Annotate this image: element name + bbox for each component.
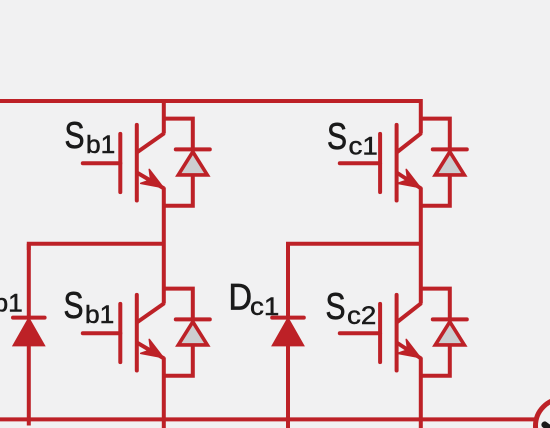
wire: left leg between IGBTs (emitter Sb1 to collector Sb1lower): [162, 187, 166, 303]
IGBT Sc2 (bottom right): gate bar: [378, 304, 382, 362]
IGBT Sb1 (bottom left): body bar: [135, 295, 139, 371]
wire: right leg between IGBTs: [419, 187, 423, 303]
IGBT Sc1 (top right): collector diagonal: [397, 133, 422, 152]
IGBT Sc2 (bottom right): gate lead: [340, 331, 380, 335]
svg-text:S: S: [327, 116, 347, 157]
IGBT Sc2 (bottom right): body bar: [395, 295, 399, 371]
wire: diode branch bottom of Sc1 (top right): [421, 175, 450, 206]
IGBT Sb1 (top left): emitter diagonal: [137, 173, 164, 189]
clamp diode Dc1: wire down from clamp wire: [286, 244, 290, 316]
IGBT Sb1 (bottom left): gate bar: [118, 304, 122, 362]
wire: diode branch top of Sc1 (top right): [421, 119, 450, 150]
wire: diode branch bottom of Sb1 (top left): [164, 175, 193, 206]
IGBT Sb1 (bottom left): gate lead: [83, 331, 121, 335]
svg-text:b1: b1: [0, 290, 23, 318]
IGBT Sb1 (top left): gate bar: [118, 134, 122, 192]
antiparallel diode of Sb1 (bottom left): cathode bar: [176, 317, 210, 321]
svg-text:S: S: [64, 285, 84, 326]
IGBT Sc2 (bottom right): emitter diagonal: [397, 343, 422, 359]
wire: diode branch bottom of Sc2 (bottom right): [421, 345, 450, 376]
IGBT Sc1 (top right): emitter arrowhead: [398, 169, 425, 194]
IGBT Sb1 (bottom left): emitter diagonal: [137, 343, 164, 359]
IGBT Sb1 (top left): gate lead: [83, 161, 121, 165]
svg-text:c1: c1: [349, 133, 378, 161]
wire: left leg from top bus to top IGBT collector: [162, 99, 166, 134]
svg-text:c1: c1: [250, 293, 279, 321]
svg-text:b1: b1: [86, 131, 115, 159]
IGBT Sc2 (bottom right): emitter arrowhead: [398, 339, 425, 364]
IGBT Sb1 (top left): collector diagonal: [137, 133, 165, 152]
load/source circle (partially visible bottom right): [536, 399, 550, 428]
clamp diode Db1: wire down to bottom bus: [27, 345, 31, 426]
IGBT Sc2 (bottom right): collector diagonal: [397, 303, 422, 322]
wire: diode branch top of Sc2 (bottom right): [421, 289, 450, 320]
svg-text:S: S: [326, 286, 346, 327]
antiparallel diode of Sc1 (top right): cathode bar: [433, 147, 467, 151]
clamp diode Db1: triangle (red fill): [14, 319, 44, 346]
clamp wire to left leg midpoint node: [29, 244, 164, 250]
IGBT Sb1 (bottom left): emitter arrowhead: [141, 339, 168, 364]
antiparallel diode of Sb1 (bottom left): triangle (gray fill): [178, 322, 207, 345]
IGBT Sb1 (top left): body bar: [135, 125, 139, 201]
clamp diode Db1: cathode bar: [13, 316, 45, 320]
top DC bus wire and right leg corner: [0, 101, 421, 134]
wire: left leg bottom emitter down past bottom bus: [162, 357, 166, 428]
wire: right leg bottom emitter down past bottom bus: [419, 357, 423, 428]
clamp diode Dc1: wire down to bottom bus: [286, 345, 290, 428]
antiparallel diode of Sc1 (top right): triangle (gray fill): [435, 152, 464, 175]
antiparallel diode of Sb1 (top left): triangle (gray fill): [178, 152, 207, 175]
IGBT Sb1 (bottom left): collector diagonal: [137, 303, 165, 322]
wire: diode branch top of Sb1 (bottom left): [164, 289, 193, 320]
IGBT Sc1 (top right): body bar: [395, 125, 399, 201]
black mark inside circle: [540, 420, 550, 428]
clamp diode Dc1: cathode bar: [272, 316, 304, 320]
antiparallel diode of Sb1 (top left): cathode bar: [176, 147, 210, 151]
antiparallel diode of Sc2 (bottom right): triangle (gray fill): [435, 322, 464, 345]
wire: diode branch top of Sb1 (top left): [164, 119, 193, 150]
svg-text:S: S: [65, 115, 85, 156]
bottom DC bus wire: [0, 417, 537, 421]
wire: diode branch bottom of Sb1 (bottom left): [164, 345, 193, 376]
svg-text:b1: b1: [85, 301, 114, 329]
IGBT Sc1 (top right): emitter diagonal: [397, 173, 422, 189]
antiparallel diode of Sc2 (bottom right): cathode bar: [433, 317, 467, 321]
svg-text:c2: c2: [347, 302, 376, 330]
svg-text:D: D: [229, 277, 253, 318]
clamp diode Dc1: triangle (red fill): [273, 319, 303, 346]
clamp diode Db1: wire down from clamp wire: [27, 244, 31, 316]
IGBT Sc1 (top right): gate lead: [340, 161, 380, 165]
IGBT Sb1 (top left): emitter arrowhead: [141, 169, 168, 194]
clamp wire to right leg midpoint node: [288, 244, 421, 250]
IGBT Sc1 (top right): gate bar: [378, 134, 382, 192]
